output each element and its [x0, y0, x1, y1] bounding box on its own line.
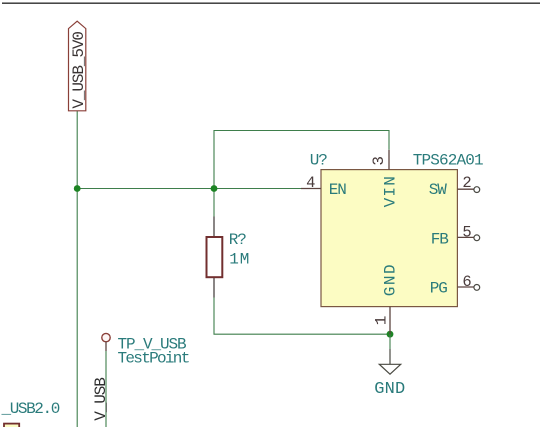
svg-text:4: 4 [306, 174, 315, 192]
svg-text:3: 3 [370, 156, 388, 166]
svg-text:6: 6 [462, 273, 471, 291]
wire: resistor bottom to GND rail [214, 298, 390, 335]
svg-text:TPS62A01: TPS62A01 [413, 151, 483, 169]
svg-text:R?: R? [229, 231, 247, 249]
svg-text:1M: 1M [229, 251, 250, 269]
svg-text:_USB2.0: _USB2.0 [1, 400, 60, 418]
pin 3 VIN [370, 150, 399, 208]
svg-text:EN: EN [329, 181, 347, 199]
svg-text:2: 2 [462, 174, 471, 192]
op-amp U? body (TPS62A01 regulator) [310, 151, 483, 306]
pin 5 FB [431, 224, 480, 249]
wire: testpoint to bottom edge [105, 351, 107, 427]
svg-text:PG: PG [430, 279, 448, 297]
pin 1 GND [373, 263, 400, 334]
pin 2 SW [429, 174, 480, 199]
resistor R? [207, 217, 251, 298]
wire: up from junction to VIN [214, 131, 389, 189]
svg-text:5: 5 [462, 224, 471, 242]
svg-text:GND: GND [374, 380, 405, 399]
ground symbol [374, 334, 405, 399]
junction at resistor column [211, 185, 218, 192]
svg-text:GND: GND [382, 263, 400, 296]
global label V_USB_5V0 [69, 21, 89, 111]
junction at V_USB_5V0 column [74, 185, 81, 192]
wire: junction down to resistor pin [213, 189, 215, 217]
svg-text:SW: SW [429, 181, 448, 199]
pin 4 EN [301, 174, 346, 199]
wire: V_USB_5V0 net vertical run [76, 111, 78, 427]
svg-text:FB: FB [431, 230, 449, 248]
svg-text:VIN: VIN [382, 175, 400, 207]
svg-text:TestPoint: TestPoint [118, 349, 189, 367]
pin 6 PG [430, 273, 480, 298]
svg-text:V_USB_5V0: V_USB_5V0 [70, 32, 88, 109]
wire: horizontal net to EN pin [77, 188, 301, 190]
svg-text:V_USB: V_USB [92, 378, 110, 421]
svg-text:U?: U? [310, 151, 328, 169]
junction at GND node [387, 331, 394, 338]
partial component box at bottom edge [4, 424, 19, 427]
sheet border top line [2, 2, 540, 4]
testpoint TP_V_USB [102, 333, 189, 367]
svg-text:1: 1 [373, 316, 391, 326]
